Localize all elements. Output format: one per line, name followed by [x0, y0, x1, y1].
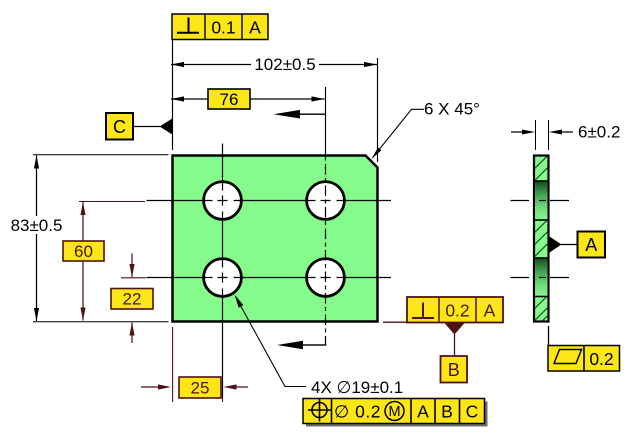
svg-text:0.1: 0.1: [211, 18, 235, 38]
FCF perpendicularity 0.1 A (top) box: [172, 14, 268, 40]
dimension 25 left arrow (points right): [141, 384, 171, 389]
FCF flatness box: [548, 346, 620, 372]
svg-text:0.2: 0.2: [589, 349, 613, 369]
dimension 22 lower arrow (points up): [129, 323, 134, 344]
svg-text:A: A: [249, 18, 261, 38]
hole bottom-right: [307, 259, 345, 297]
svg-text:83±0.5: 83±0.5: [11, 216, 63, 235]
dimension 102±0.5 line: [171, 62, 377, 67]
FCF perpendicularity 0.2 A (right, dark red) box: [407, 297, 503, 323]
svg-text:C: C: [466, 402, 479, 422]
svg-text:6 X 45°: 6 X 45°: [424, 100, 480, 119]
side view centerline stubs row1: [511, 200, 570, 202]
section view arrow top (points left): [274, 110, 326, 119]
svg-text:B: B: [441, 402, 453, 422]
extension line plate bottom to right FCF (maroon): [383, 321, 407, 323]
svg-text:25: 25: [191, 379, 210, 398]
svg-text:6±0.2: 6±0.2: [578, 123, 620, 142]
side view hole band bottom (dark): [535, 258, 547, 297]
datum A box: [578, 232, 606, 258]
datum A leader line: [561, 244, 578, 246]
extension line right edge (x=377.5): [377, 58, 379, 162]
dimension 76 yellow box: [208, 89, 250, 109]
svg-text:A: A: [585, 235, 597, 255]
dimension 76 line: [171, 96, 325, 101]
dimension 25 right arrow (points left): [224, 384, 249, 389]
svg-text:76: 76: [220, 90, 239, 109]
dimension 6±0.2 extension lines: [536, 120, 549, 150]
dimension 60 yellow box: [63, 241, 104, 261]
svg-text:0.2: 0.2: [445, 301, 469, 321]
extension line 22 (y=277.8 maroon): [121, 277, 146, 279]
side view hole edge lines: [534, 181, 549, 297]
FCF position (bottom) box: [303, 399, 488, 427]
side view centerline stubs row2: [511, 277, 570, 279]
extension line 25 right (x=222.5 maroon lower part): [222, 398, 224, 402]
FCF position M circle modifier: [385, 402, 404, 421]
side view hatching: [533, 154, 550, 330]
extension line left edge (x=172.5 from FCF to plate): [172, 40, 174, 151]
section cutting line / column 2 centerline (x=325.5, dashed): [325, 87, 327, 345]
datum B box: [441, 356, 468, 383]
svg-text:M: M: [388, 404, 400, 420]
svg-text:C: C: [113, 117, 126, 137]
side view plate body: [534, 156, 549, 322]
svg-text:A: A: [417, 402, 429, 422]
hole top-right: [307, 182, 345, 220]
chamfer leader 6 X 45deg: [372, 109, 425, 159]
datum A triangle: [550, 237, 562, 253]
svg-text:60: 60: [74, 242, 93, 261]
FCF position symbol: [308, 399, 331, 422]
svg-text:A: A: [484, 301, 496, 321]
side view hole band top (dark): [535, 181, 547, 220]
hole bottom-left: [204, 259, 242, 297]
dimension 60 line: [80, 202, 85, 321]
datum C box: [106, 113, 133, 140]
section view arrow bottom (points left): [277, 341, 326, 350]
extension line 83 top (y=154.7): [33, 154, 169, 156]
extension line 83/22 bottom (y=321.5): [33, 321, 169, 323]
flatness parallelogram symbol: [554, 350, 582, 364]
dimension 25 yellow box: [179, 377, 221, 398]
flatness FCF leader line: [548, 326, 550, 346]
svg-text:4X ∅19±0.1: 4X ∅19±0.1: [311, 378, 403, 397]
dimension 83±0.5 line: [34, 156, 39, 322]
svg-text:22: 22: [123, 290, 142, 309]
datum B leader line: [454, 334, 456, 356]
svg-text:∅ 0.2: ∅ 0.2: [334, 402, 381, 422]
svg-text:102±0.5: 102±0.5: [254, 55, 315, 74]
centerline row 2 (y=277.5): [147, 277, 392, 279]
dimension 22 yellow box: [111, 289, 153, 310]
centerline column 1 (x=222.5): [222, 144, 224, 399]
datum C triangle: [160, 119, 173, 135]
centerline row 1 (y=200.5): [147, 200, 392, 202]
svg-text:B: B: [448, 360, 460, 380]
hole top-left: [204, 182, 242, 220]
FCF top perpendicularity symbol: [177, 18, 199, 33]
extension line 60 (y=201.5 maroon): [79, 201, 145, 203]
datum C leader line: [133, 126, 160, 128]
hole callout leader: [235, 295, 307, 387]
dimension 22 upper arrow (points down): [129, 254, 134, 278]
datum B triangle (below right FCF): [444, 323, 465, 335]
plate front view (green, chamfered top-right corner): [173, 156, 378, 322]
dimension 6±0.2 arrows: [511, 130, 573, 135]
FCF right perpendicularity symbol: [412, 303, 434, 319]
extension line 25 left (x=172.6 maroon): [172, 327, 174, 402]
